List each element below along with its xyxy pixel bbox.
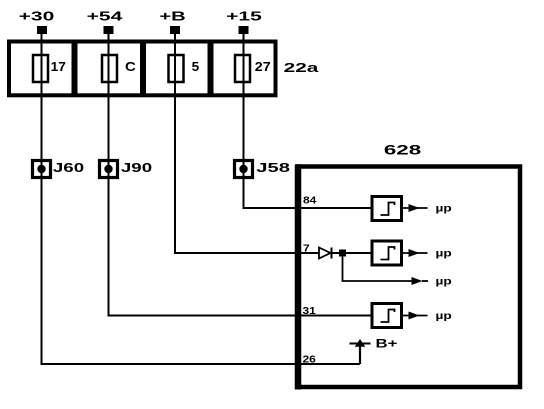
B+ arrow bbox=[350, 339, 371, 347]
wire +54 vertical bbox=[108, 33, 110, 316]
fuse C bbox=[102, 55, 117, 82]
svg-text:µp: µp bbox=[436, 310, 452, 322]
svg-text:J58: J58 bbox=[256, 160, 290, 175]
svg-text:J60: J60 bbox=[53, 161, 84, 176]
wire +B vertical bbox=[174, 33, 176, 253]
svg-text:+B: +B bbox=[159, 9, 185, 24]
arrow output U1 bbox=[402, 204, 428, 212]
svg-text:84: 84 bbox=[303, 195, 317, 206]
arrow output U3 bbox=[402, 312, 428, 320]
svg-text:17: 17 bbox=[51, 59, 66, 74]
svg-text:31: 31 bbox=[303, 306, 316, 317]
connector J58 bbox=[235, 161, 253, 178]
wire +30 vertical bbox=[41, 33, 43, 364]
diode D1 bbox=[319, 248, 332, 259]
svg-text:26: 26 bbox=[303, 354, 316, 365]
terminal +54 bbox=[104, 26, 114, 34]
fuse 27 bbox=[235, 55, 250, 82]
wire pin31 horizontal bbox=[108, 315, 373, 317]
wire +15 vertical bbox=[243, 33, 245, 208]
wire pin84 horizontal bbox=[243, 207, 373, 209]
svg-text:+54: +54 bbox=[87, 9, 123, 24]
fuse box divider 2 bbox=[140, 42, 146, 96]
fuse box 22a outer bbox=[9, 42, 276, 96]
svg-text:22a: 22a bbox=[284, 60, 319, 75]
svg-text:5: 5 bbox=[192, 59, 200, 74]
control unit 628 box bbox=[298, 167, 520, 388]
fuse box divider 3 bbox=[208, 42, 214, 96]
svg-text:µp: µp bbox=[436, 247, 452, 259]
arrow output U2 bbox=[402, 249, 428, 257]
wire branch from junction bbox=[343, 254, 412, 281]
schmitt trigger U1 bbox=[372, 197, 402, 221]
wire pin26 horizontal bbox=[41, 363, 361, 365]
wire pin7 horizontal bbox=[174, 252, 319, 254]
svg-text:µp: µp bbox=[436, 202, 452, 214]
fuse 17 bbox=[33, 55, 48, 82]
terminal +30 bbox=[37, 26, 47, 34]
fuse 5 bbox=[169, 55, 184, 82]
wire pin26 riser bbox=[359, 344, 361, 364]
schmitt trigger U3 bbox=[372, 304, 402, 328]
svg-text:+15: +15 bbox=[226, 9, 262, 24]
svg-text:27: 27 bbox=[255, 60, 271, 74]
junction node bbox=[339, 250, 346, 257]
svg-text:µp: µp bbox=[436, 275, 452, 287]
svg-text:B+: B+ bbox=[376, 338, 398, 351]
fuse box divider 1 bbox=[72, 42, 78, 96]
svg-text:C: C bbox=[125, 59, 136, 74]
svg-text:J90: J90 bbox=[121, 161, 152, 176]
schmitt trigger U2 bbox=[372, 241, 402, 265]
terminal +15 bbox=[239, 26, 249, 34]
svg-text:+30: +30 bbox=[19, 9, 55, 24]
connector J60 bbox=[33, 161, 51, 178]
arrow branch bbox=[412, 277, 429, 285]
svg-text:628: 628 bbox=[384, 142, 421, 158]
terminal +B bbox=[170, 26, 180, 34]
wire diode to schmitt bbox=[332, 252, 373, 254]
connector J90 bbox=[100, 161, 118, 178]
svg-text:7: 7 bbox=[303, 243, 310, 254]
